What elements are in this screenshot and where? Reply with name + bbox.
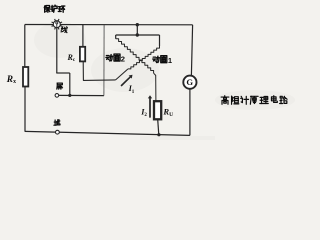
wire Rc branch from top bus (82, 25, 84, 47)
wire coil-1 to RU (154, 73, 156, 101)
resistor Rx body (23, 67, 28, 87)
wire left branch lower (Rx to ground bus) (24, 87, 26, 132)
wire ground bus (25, 131, 190, 135)
label 动圈1 (153, 56, 160, 62)
wire coil-2 tail to Rc horizontal (116, 69, 128, 80)
wire coil top bus (116, 34, 160, 36)
wire RU to ground bus (158, 119, 159, 135)
svg-text:2: 2 (121, 55, 125, 64)
junction dot guard-shield (68, 94, 71, 97)
wire galvanometer to ground bus (189, 89, 191, 135)
resistor Rc body (80, 47, 85, 62)
wire shield bus (59, 94, 104, 96)
wire guard branch jog (56, 72, 70, 74)
wire meter branch right vertical (191, 25, 192, 76)
wire top bus (guard-ring node to galvanometer) (25, 24, 193, 26)
node dot coil bus (136, 33, 139, 36)
terminal 屏 (shield) open circle (55, 94, 59, 98)
wire guard branch down (56, 28, 58, 73)
svg-text:RU: RU (162, 106, 173, 118)
label 屏 (57, 83, 63, 89)
wire coil-2 top drop (159, 35, 161, 46)
wire shield riser to top bus (103, 25, 105, 96)
caption 高阻计原理电路 (221, 96, 229, 104)
moving coil 2 (动圈2 winding, upper-right to lower-left) (128, 46, 160, 69)
label 地 (54, 120, 60, 126)
label 线 (61, 27, 67, 33)
wire left branch upper (top bus to Rx) (24, 25, 26, 68)
current arrow I1 (122, 77, 131, 85)
resistor RU body (154, 101, 161, 119)
moving coil 1 (动圈1 winding, upper-left to lower-right) (116, 39, 154, 73)
paper scan texture (91, 48, 159, 92)
wire meter branch drop (136, 25, 138, 35)
junction dot RU-ground (157, 133, 160, 136)
galvanometer G body (183, 76, 196, 89)
current arrow I2 (149, 98, 151, 117)
wire Rc to coil-2 bottom end (83, 61, 115, 80)
label 保护环 (44, 6, 50, 13)
label 动圈2 (106, 55, 113, 61)
wire coil-1 top drop (115, 35, 117, 39)
svg-text:I2: I2 (140, 108, 147, 119)
svg-text:1: 1 (168, 56, 173, 65)
svg-text:Rx: Rx (6, 75, 16, 85)
node dot top bus / meter branch (136, 23, 139, 26)
svg-text:G: G (186, 77, 193, 87)
terminal 地 (earth) open circle (56, 130, 60, 134)
guard-ring terminal symbol (53, 21, 60, 28)
